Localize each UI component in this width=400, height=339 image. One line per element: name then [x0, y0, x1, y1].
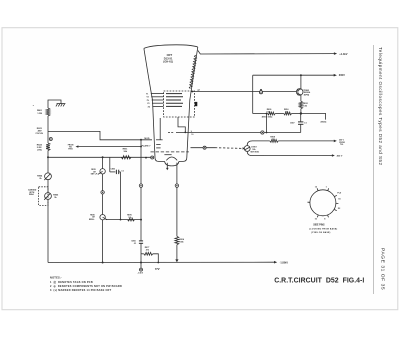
svg-text:*: *	[33, 105, 34, 108]
CRT side contact	[195, 102, 198, 106]
potentiometer CV807 loop	[278, 140, 334, 142]
resistor R877 branch	[141, 253, 144, 255]
svg-text:(LOOKING FROM BASE): (LOOKING FROM BASE)	[309, 227, 337, 230]
junction grid bus mid	[102, 156, 104, 158]
wire left rail	[47, 151, 49, 173]
tube base ticks	[308, 188, 339, 217]
wire loop left	[247, 141, 332, 156]
wire mod output stub	[301, 114, 326, 120]
potentiometer R815 SET LP	[100, 169, 105, 174]
svg-text:C803: C803	[111, 168, 116, 170]
CRT heater loop	[165, 161, 179, 166]
CRT V801 envelope	[144, 45, 198, 162]
svg-text:10: 10	[191, 134, 193, 136]
svg-text:(R810 100k): (R810 100k)	[262, 117, 273, 119]
potentiometer R805	[45, 193, 52, 200]
junction grid bus left	[47, 156, 49, 158]
junction collector at rail	[300, 74, 302, 76]
tag on focus node	[49, 138, 52, 141]
wire PDA to EHT arrow	[198, 51, 334, 55]
junction bus centre rail	[102, 262, 104, 264]
svg-text:TRIG: TRIG	[68, 149, 73, 151]
tag grid pin	[151, 156, 154, 159]
svg-text:(1M): (1M)	[37, 149, 42, 151]
tag heater rail	[175, 184, 178, 187]
transistor TR802	[296, 75, 303, 101]
capacitor C803	[110, 157, 121, 174]
sidebar rule	[373, 45, 375, 294]
svg-text:NOTES:-: NOTES:-	[50, 275, 62, 279]
wire trig blanking input	[78, 146, 141, 148]
tag on astig rail	[261, 131, 264, 134]
wire left rail	[47, 180, 49, 193]
svg-text:77V: 77V	[155, 267, 160, 271]
wire heater rail G	[176, 163, 178, 237]
tag on PDA line	[259, 91, 262, 94]
resistor R809	[268, 112, 276, 115]
svg-text:X1: X1	[147, 103, 149, 105]
deflection plate box (dashed)	[164, 91, 195, 117]
svg-text:-1.85kV: -1.85kV	[280, 261, 289, 264]
wire grid rail E lower	[140, 243, 142, 268]
junction grid rail at bus	[140, 262, 142, 264]
resistor R812	[299, 101, 302, 109]
svg-text:470: 470	[272, 138, 275, 141]
svg-text:400 V: 400 V	[337, 155, 343, 158]
junction brightness node	[140, 219, 142, 221]
junction mod node	[140, 139, 142, 141]
svg-text:X2: X2	[148, 106, 150, 108]
wire X plate jog to astig rail	[178, 117, 185, 132]
deflection plates	[166, 94, 183, 107]
svg-text:+1.4kV: +1.4kV	[339, 52, 348, 56]
wire left rail to bottom bus	[47, 199, 49, 262]
capacitor C807	[298, 114, 303, 133]
wire astig rail to C807	[176, 132, 301, 134]
wire CRT to CV807 (dash-dot)	[191, 147, 216, 149]
svg-text:300V: 300V	[339, 73, 345, 77]
wire to emitter node	[292, 113, 301, 115]
junction drop on astig rail	[266, 132, 268, 134]
svg-text:SIDE PINS: SIDE PINS	[313, 225, 325, 227]
wire left rail	[47, 116, 49, 143]
capacitor C806	[139, 241, 143, 243]
wire between resistors	[275, 113, 284, 115]
potentiometer R804	[45, 173, 52, 180]
wire 300V top rail	[253, 74, 334, 76]
wire heater rail to bus with arrow	[176, 245, 178, 260]
label R823 FOCUS	[36, 128, 44, 135]
tag grid rail	[139, 184, 142, 187]
resistor R811	[121, 156, 131, 159]
svg-text:C.R.T.CIRCUIT D52 FIG.4-I: C.R.T.CIRCUIT D52 FIG.4-I	[274, 278, 364, 285]
wire C803 to brightness wire	[120, 172, 122, 220]
svg-text:(GH-61): (GH-61)	[163, 60, 173, 64]
wire drop to astig rail	[266, 114, 268, 133]
astig electrode dashes	[168, 132, 174, 134]
wire centre rail C	[102, 157, 104, 168]
electrode mod bar	[156, 139, 163, 141]
wire rail down leg	[252, 75, 254, 113]
tube base caption	[309, 225, 337, 234]
wire centre rail C	[102, 174, 104, 215]
junction C803 drop	[120, 219, 122, 221]
svg-text:(PINS ON BASE): (PINS ON BASE)	[311, 231, 330, 234]
svg-text:T.B.: T.B.	[340, 144, 344, 146]
wire R812 to emitter node	[300, 109, 302, 114]
junction astig rail	[184, 132, 186, 134]
pin labels Y1 Y2 PL X1 X2	[146, 94, 150, 109]
gang dashed link	[39, 187, 48, 206]
svg-text:9: 9	[191, 131, 192, 133]
bottom bus	[48, 261, 274, 263]
tube base view circle	[310, 190, 336, 216]
svg-text:SET MOD: SET MOD	[250, 152, 259, 154]
tag centre rail	[101, 191, 104, 194]
svg-text:Y1: Y1	[146, 94, 148, 96]
junction PDA pin	[192, 91, 194, 93]
resistor R808	[270, 140, 278, 143]
node 300V FROM T.B.	[339, 140, 345, 147]
wire to R809	[253, 113, 268, 115]
svg-text:SET LP: SET LP	[91, 174, 98, 176]
junction R809 drop	[266, 113, 268, 115]
electrode g2 bars	[156, 143, 160, 145]
svg-text:1 Ⓟ DENOTES TAGS ON PCB: 1 Ⓟ DENOTES TAGS ON PCB	[50, 280, 93, 284]
resistor R810	[284, 112, 292, 115]
tube base pin labels	[315, 186, 342, 220]
CRT type label	[163, 53, 173, 64]
svg-text:-1.5kV: -1.5kV	[137, 272, 143, 274]
svg-text:PLATE 7: PLATE 7	[142, 144, 152, 147]
junction grid pin	[145, 157, 147, 159]
wire grid bus	[48, 156, 153, 158]
svg-text:Telequipment Oscilloscopes Typ: Telequipment Oscilloscopes Types D52 and…	[378, 47, 383, 165]
electrode cathode bar	[164, 154, 171, 156]
CRT PDA helix	[189, 55, 196, 89]
resistor R824	[46, 143, 50, 151]
tag on CV807 wire	[203, 146, 206, 149]
deflection plate stubs Y1 Y2 PL X1 X2	[151, 94, 164, 107]
potentiometer R830 BRILLIANCE	[100, 215, 105, 220]
wire brightness to grid network	[106, 219, 142, 221]
electrode shield dashes	[151, 151, 189, 153]
tag below bus	[140, 268, 143, 271]
resistor R814	[175, 236, 179, 245]
svg-text:C807: C807	[290, 123, 295, 125]
svg-text:Y2: Y2	[146, 97, 148, 99]
wire plate lead inside neck	[159, 118, 161, 140]
resistor R876	[128, 218, 135, 221]
wire left rail top hook	[48, 100, 61, 108]
svg-text:0.1: 0.1	[121, 170, 124, 172]
heater pin left with arrow	[166, 163, 168, 168]
potentiometer CV807	[244, 146, 250, 152]
wire grid rail E	[140, 140, 142, 241]
svg-text:3 (s) MARKED DENOTES 14 PIN B: 3 (s) MARKED DENOTES 14 PIN BASE CRT	[50, 289, 112, 292]
svg-text:(MOD): (MOD)	[321, 122, 327, 124]
junction emitter node	[300, 112, 302, 114]
ground chassis	[56, 104, 66, 107]
wire centre rail C to bus	[102, 220, 104, 263]
wire focus to MOD plate	[48, 131, 152, 139]
svg-text:BRILL: BRILL	[89, 219, 95, 221]
svg-text:PAGE 31 OF 35: PAGE 31 OF 35	[380, 248, 386, 290]
svg-text:.01: .01	[134, 243, 137, 245]
junction R877 at bus	[157, 262, 159, 264]
svg-text:(NPN): (NPN)	[304, 95, 310, 97]
svg-text:2 ◎ DENOTES COMPONENTS NOT O: 2 ◎ DENOTES COMPONENTS NOT ON PW BOARD	[50, 285, 122, 288]
resistor R801	[46, 108, 50, 116]
svg-text:FOCUS: FOCUS	[36, 133, 44, 135]
junction trig node	[140, 146, 142, 148]
svg-text:0.1: 0.1	[304, 123, 307, 125]
svg-text:1.5M: 1.5M	[37, 113, 42, 115]
wire PDA pin to TR802 base	[191, 91, 298, 93]
label FROM T.B. TRIG	[68, 144, 74, 150]
